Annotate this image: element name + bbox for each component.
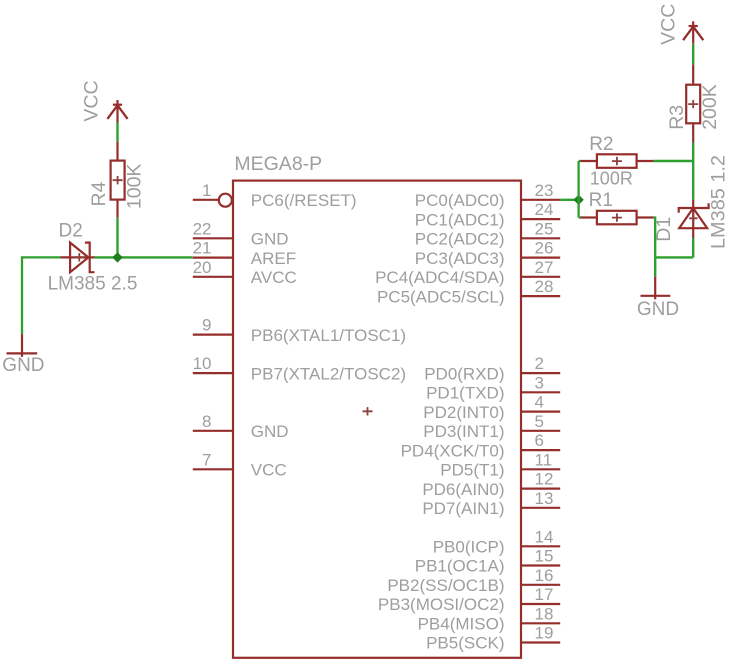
- pin 7 VCC: [193, 450, 287, 479]
- wire R2 to R3/D1 column: [654, 160, 694, 162]
- label 100R: [590, 168, 633, 188]
- wire VCC to R4: [116, 123, 118, 142]
- pin 17 PB3(MOSI/OC2): [378, 585, 560, 614]
- svg-text:AVCC: AVCC: [251, 268, 297, 287]
- svg-text:PD2(INT0): PD2(INT0): [423, 403, 504, 422]
- svg-text:PC3(ADC3): PC3(ADC3): [415, 249, 505, 268]
- wire node to R2 and R1: [579, 161, 581, 218]
- pin 12 PD6(AIN0): [422, 470, 560, 499]
- svg-text:PD4(XCK/T0): PD4(XCK/T0): [401, 441, 505, 460]
- pin 1 PC6(/RESET): [193, 181, 357, 210]
- svg-text:VCC: VCC: [80, 80, 102, 121]
- svg-text:9: 9: [202, 316, 211, 335]
- svg-text:PC5(ADC5/SCL): PC5(ADC5/SCL): [377, 287, 505, 306]
- label GND (right): [637, 299, 679, 320]
- pin 26 PC3(ADC3): [415, 239, 560, 268]
- svg-text:PB7(XTAL2/TOSC2): PB7(XTAL2/TOSC2): [251, 364, 406, 383]
- wire to ground (right): [654, 257, 656, 276]
- svg-text:PB3(MOSI/OC2): PB3(MOSI/OC2): [378, 595, 505, 614]
- resistor R3: [686, 64, 700, 142]
- svg-text:26: 26: [535, 239, 554, 258]
- junction node AREF: [112, 252, 122, 262]
- wire R1 to GND rail: [654, 218, 656, 258]
- pin 9 PB6(XTAL1/TOSC1): [193, 316, 406, 345]
- svg-text:PC0(ADC0): PC0(ADC0): [415, 191, 505, 210]
- resistor R1: [581, 211, 654, 225]
- svg-text:6: 6: [535, 431, 544, 450]
- svg-text:100K: 100K: [124, 164, 146, 210]
- svg-text:PB4(MISO): PB4(MISO): [418, 615, 505, 634]
- wire pin 23 to node: [560, 199, 578, 201]
- junction node pin23: [573, 195, 583, 205]
- label R3: [666, 105, 688, 130]
- svg-text:R3: R3: [666, 105, 688, 130]
- svg-text:PD0(RXD): PD0(RXD): [424, 364, 504, 383]
- svg-text:PD5(T1): PD5(T1): [440, 461, 504, 480]
- resistor R2: [581, 154, 654, 168]
- resistor R4: [111, 142, 125, 218]
- label GND (left): [2, 355, 44, 376]
- svg-text:PC2(ADC2): PC2(ADC2): [415, 230, 505, 249]
- svg-text:GND: GND: [637, 299, 679, 320]
- wire D2 anode to GND corner: [22, 257, 60, 334]
- supply symbol VCC (right): [683, 21, 703, 44]
- label 100K: [124, 164, 146, 210]
- svg-text:12: 12: [535, 470, 554, 489]
- pin 23 PC0(ADC0): [415, 181, 560, 210]
- label 200K: [699, 84, 721, 130]
- pin 13 PD7(AIN1): [422, 489, 560, 518]
- diode D1: [679, 200, 709, 238]
- svg-text:PC1(ADC1): PC1(ADC1): [415, 210, 505, 229]
- pin 22 GND: [193, 219, 289, 248]
- svg-text:19: 19: [535, 624, 554, 643]
- pin 5 PD3(INT1): [423, 412, 560, 441]
- pin 8 GND: [193, 412, 289, 441]
- svg-text:LM385 1.2: LM385 1.2: [707, 155, 729, 249]
- svg-text:10: 10: [193, 354, 212, 373]
- supply symbol VCC (left): [107, 100, 127, 123]
- pin 20 AVCC: [193, 258, 297, 287]
- svg-text:PD6(AIN0): PD6(AIN0): [422, 480, 504, 499]
- svg-text:GND: GND: [251, 422, 289, 441]
- pin 6 PD4(XCK/T0): [401, 431, 561, 460]
- pin 3 PD1(TXD): [426, 373, 560, 402]
- pin 24 PC1(ADC1): [415, 200, 560, 229]
- IC U1 MEGA8-P body: [233, 181, 521, 658]
- IC U1 origin cross: [363, 407, 373, 415]
- pin 15 PB1(OC1A): [415, 547, 560, 576]
- label R1: [589, 190, 613, 211]
- diode D2: [60, 243, 94, 273]
- wire D2 cathode to AREF pin: [95, 256, 193, 258]
- svg-text:PB5(SCK): PB5(SCK): [426, 634, 504, 653]
- svg-text:PD7(AIN1): PD7(AIN1): [422, 499, 504, 518]
- pin 14 PB0(ICP): [433, 527, 560, 556]
- pin 25 PC2(ADC2): [415, 219, 560, 248]
- svg-text:GND: GND: [251, 230, 289, 249]
- svg-text:27: 27: [535, 258, 554, 277]
- label D2: [59, 221, 83, 242]
- svg-text:R2: R2: [589, 134, 613, 155]
- svg-text:21: 21: [193, 239, 212, 258]
- svg-text:16: 16: [535, 566, 554, 585]
- svg-text:PB1(OC1A): PB1(OC1A): [415, 557, 505, 576]
- pin 28 PC5(ADC5/SCL): [377, 277, 560, 306]
- pin 19 PB5(SCK): [426, 624, 560, 653]
- svg-text:4: 4: [535, 393, 544, 412]
- wire D1 to GND rail: [692, 238, 694, 257]
- svg-text:100R: 100R: [590, 168, 633, 188]
- wire R3 to D1: [692, 143, 694, 200]
- svg-text:PD1(TXD): PD1(TXD): [426, 384, 504, 403]
- label D1: [653, 217, 675, 242]
- svg-text:LM385 2.5: LM385 2.5: [48, 274, 138, 295]
- svg-text:R4: R4: [88, 181, 110, 206]
- svg-text:25: 25: [535, 219, 554, 238]
- svg-text:D2: D2: [59, 221, 83, 242]
- pin 18 PB4(MISO): [418, 604, 561, 633]
- pin 16 PB2(SS/OC1B): [387, 566, 560, 595]
- ground symbol GND (right): [641, 277, 671, 300]
- svg-text:22: 22: [193, 219, 212, 238]
- svg-text:23: 23: [535, 181, 554, 200]
- label LM385 2.5: [48, 274, 138, 295]
- IC U1 name label MEGA8-P: [234, 153, 322, 175]
- svg-text:3: 3: [535, 373, 544, 392]
- svg-text:GND: GND: [2, 355, 44, 376]
- svg-text:PB0(ICP): PB0(ICP): [433, 538, 505, 557]
- label R2: [589, 134, 613, 155]
- svg-text:PB2(SS/OC1B): PB2(SS/OC1B): [387, 576, 504, 595]
- svg-text:VCC: VCC: [251, 461, 287, 480]
- pin 27 PC4(ADC4/SDA): [375, 258, 560, 287]
- svg-text:2: 2: [535, 354, 544, 373]
- svg-text:1: 1: [202, 181, 211, 200]
- svg-text:VCC: VCC: [657, 4, 679, 45]
- svg-text:200K: 200K: [699, 84, 721, 130]
- svg-text:PD3(INT1): PD3(INT1): [423, 422, 504, 441]
- svg-text:24: 24: [535, 200, 554, 219]
- ground symbol GND (left): [7, 334, 38, 357]
- svg-text:AREF: AREF: [251, 249, 296, 268]
- svg-text:PB6(XTAL1/TOSC1): PB6(XTAL1/TOSC1): [251, 326, 406, 345]
- label VCC (left supply): [80, 80, 102, 121]
- svg-text:20: 20: [193, 258, 212, 277]
- svg-text:15: 15: [535, 547, 554, 566]
- pin 4 PD2(INT0): [423, 393, 560, 422]
- svg-text:7: 7: [202, 450, 211, 469]
- pin 21 AREF: [193, 239, 297, 268]
- pin 11 PD5(T1): [440, 450, 560, 479]
- svg-text:PC6(/RESET): PC6(/RESET): [251, 191, 357, 210]
- svg-text:MEGA8-P: MEGA8-P: [234, 153, 322, 175]
- svg-text:18: 18: [535, 604, 554, 623]
- svg-text:14: 14: [535, 527, 554, 546]
- wire R4 to node AREF: [116, 218, 118, 258]
- label VCC (right supply): [657, 4, 679, 45]
- svg-text:PC4(ADC4/SDA): PC4(ADC4/SDA): [375, 268, 504, 287]
- svg-text:R1: R1: [589, 190, 613, 211]
- label LM385 1.2: [707, 155, 729, 249]
- svg-text:28: 28: [535, 277, 554, 296]
- svg-text:17: 17: [535, 585, 554, 604]
- pin 2 PD0(RXD): [424, 354, 560, 383]
- wire GND rail horizontal: [655, 256, 693, 258]
- svg-text:D1: D1: [653, 217, 675, 242]
- svg-text:11: 11: [535, 450, 553, 469]
- pin 10 PB7(XTAL2/TOSC2): [193, 354, 406, 383]
- wire VCC to R3: [692, 44, 694, 65]
- svg-text:13: 13: [535, 489, 554, 508]
- label R4: [88, 181, 110, 206]
- svg-text:5: 5: [535, 412, 544, 431]
- svg-text:8: 8: [202, 412, 211, 431]
